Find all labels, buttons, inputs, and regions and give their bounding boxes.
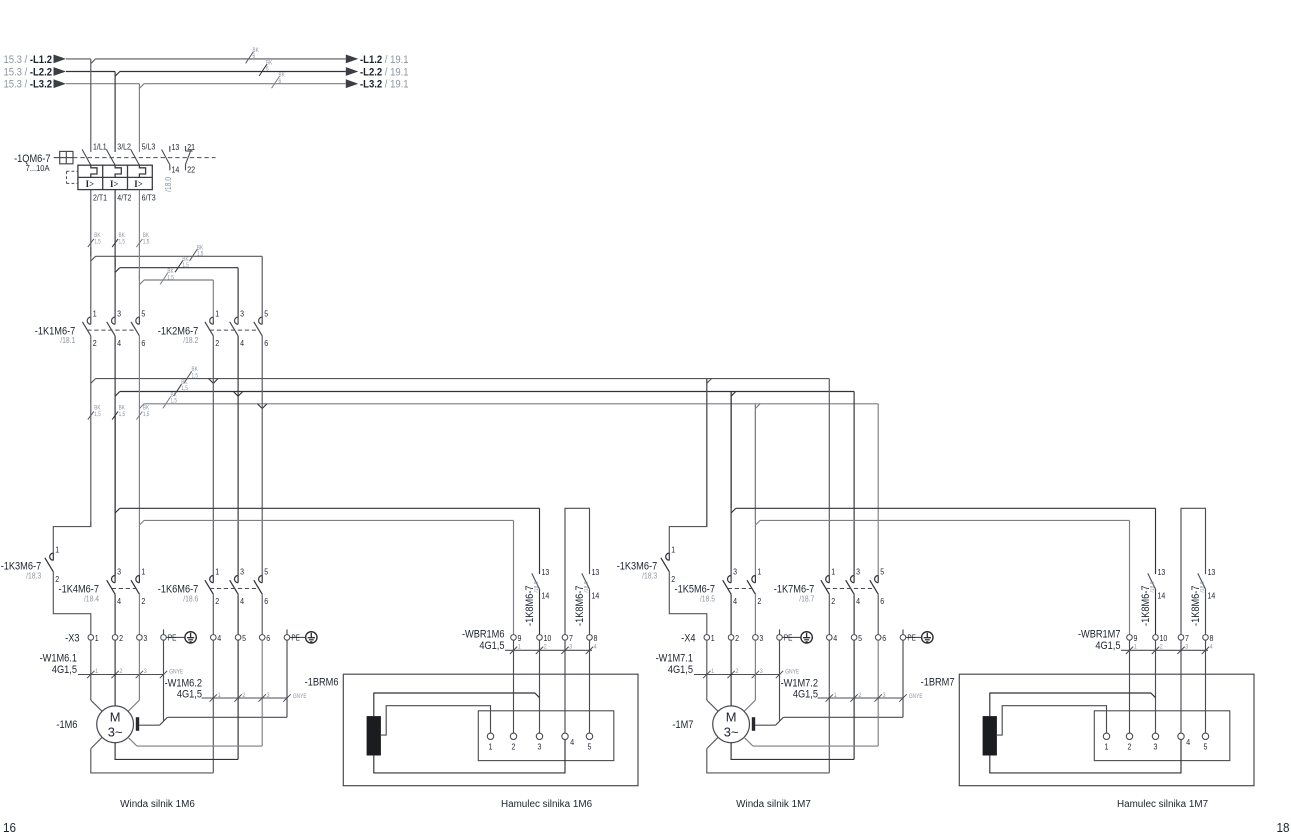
svg-text:5: 5: [264, 309, 268, 319]
svg-text:-WBR1M6: -WBR1M6: [462, 629, 505, 641]
svg-text:13: 13: [542, 567, 550, 577]
svg-text:1: 1: [55, 545, 59, 555]
svg-text:4G1,5: 4G1,5: [668, 664, 693, 676]
svg-text:2: 2: [119, 634, 123, 644]
svg-text:21: 21: [187, 143, 195, 153]
svg-text:-X4: -X4: [681, 633, 696, 645]
svg-text:2: 2: [215, 597, 219, 607]
svg-text:/18.8: /18.8: [534, 582, 540, 593]
svg-text:3: 3: [856, 567, 860, 577]
svg-text:/18.4: /18.4: [84, 594, 99, 604]
svg-text:GNYE: GNYE: [909, 693, 923, 700]
svg-text:13: 13: [592, 567, 600, 577]
svg-text:-L3.2 / 19.1: -L3.2 / 19.1: [360, 79, 409, 91]
svg-text:-W1M6.2: -W1M6.2: [165, 678, 203, 690]
svg-text:3: 3: [143, 634, 147, 644]
svg-text:4G1,5: 4G1,5: [1095, 641, 1120, 653]
svg-text:2: 2: [1128, 742, 1132, 752]
svg-text:5: 5: [264, 567, 268, 577]
svg-text:3~: 3~: [724, 725, 739, 740]
svg-text:4G1,5: 4G1,5: [52, 664, 77, 676]
svg-text:PE: PE: [907, 633, 916, 643]
svg-text:3: 3: [117, 309, 121, 319]
svg-text:4G1,5: 4G1,5: [177, 689, 202, 701]
svg-text:13: 13: [1158, 567, 1166, 577]
svg-text:3/L2: 3/L2: [117, 142, 131, 152]
svg-text:5: 5: [141, 309, 145, 319]
svg-text:-WBR1M7: -WBR1M7: [1078, 629, 1121, 641]
svg-text:4: 4: [733, 597, 737, 607]
svg-text:8: 8: [594, 634, 598, 644]
svg-text:5: 5: [1204, 742, 1208, 752]
svg-text:/18.2: /18.2: [183, 336, 198, 346]
svg-text:1,5: 1,5: [119, 239, 126, 246]
svg-text:1/L1: 1/L1: [93, 142, 107, 152]
svg-text:6: 6: [266, 634, 270, 644]
svg-text:/18.3: /18.3: [642, 571, 657, 581]
svg-text:2: 2: [512, 742, 516, 752]
svg-text:GNYE: GNYE: [169, 669, 183, 676]
svg-text:1: 1: [141, 567, 145, 577]
svg-text:1: 1: [1105, 742, 1109, 752]
svg-text:1,5: 1,5: [143, 411, 150, 418]
svg-text:1,5: 1,5: [167, 275, 174, 282]
svg-text:1: 1: [215, 309, 219, 319]
svg-text:PE: PE: [168, 633, 177, 643]
svg-text:5: 5: [242, 634, 246, 644]
svg-text:14: 14: [1208, 591, 1216, 601]
svg-text:M: M: [110, 709, 121, 724]
svg-text:1,5: 1,5: [171, 398, 178, 405]
svg-text:1,5: 1,5: [197, 251, 204, 258]
svg-text:Winda silnik 1M6: Winda silnik 1M6: [120, 799, 195, 810]
svg-text:4G1,5: 4G1,5: [793, 689, 818, 701]
svg-text:4: 4: [240, 597, 244, 607]
svg-text:-W1M7.2: -W1M7.2: [781, 678, 819, 690]
svg-text:-L2.2 / 19.1: -L2.2 / 19.1: [360, 67, 409, 79]
svg-text:-1BRM7: -1BRM7: [921, 677, 955, 689]
svg-text:3: 3: [759, 634, 763, 644]
svg-text:1,5: 1,5: [181, 386, 188, 393]
svg-text:14: 14: [592, 591, 600, 601]
svg-text:6: 6: [279, 78, 282, 85]
svg-text:4: 4: [117, 597, 121, 607]
svg-text:9: 9: [1134, 634, 1138, 644]
svg-text:M: M: [726, 709, 737, 724]
svg-text:15.3 / -L3.2: 15.3 / -L3.2: [3, 79, 52, 91]
svg-text:10: 10: [544, 634, 552, 644]
svg-text:1: 1: [215, 567, 219, 577]
svg-text:I>: I>: [86, 178, 94, 188]
svg-text:-1M6: -1M6: [56, 719, 77, 731]
svg-text:2: 2: [757, 597, 761, 607]
svg-text:7: 7: [569, 634, 573, 644]
svg-text:I>: I>: [110, 178, 118, 188]
svg-text:1: 1: [93, 309, 97, 319]
svg-text:7...10A: 7...10A: [26, 164, 51, 173]
svg-text:1,5: 1,5: [94, 239, 101, 246]
svg-text:18: 18: [1276, 821, 1289, 834]
svg-text:4: 4: [217, 634, 221, 644]
svg-text:1: 1: [831, 567, 835, 577]
svg-text:10: 10: [1160, 634, 1168, 644]
svg-text:2: 2: [215, 338, 219, 348]
svg-text:6/T3: 6/T3: [142, 193, 156, 203]
svg-text:7: 7: [1185, 634, 1189, 644]
svg-text:/18.6: /18.6: [183, 594, 198, 604]
svg-text:14: 14: [1158, 591, 1166, 601]
svg-text:5: 5: [858, 634, 862, 644]
svg-text:-1BRM6: -1BRM6: [305, 677, 339, 689]
svg-text:2: 2: [831, 597, 835, 607]
svg-text:3: 3: [117, 567, 121, 577]
svg-text:4: 4: [833, 634, 837, 644]
svg-text:Winda silnik 1M7: Winda silnik 1M7: [736, 799, 811, 810]
svg-text:2: 2: [55, 574, 59, 584]
svg-text:9: 9: [518, 634, 522, 644]
svg-text:/18.3: /18.3: [26, 571, 41, 581]
svg-text:1,5: 1,5: [182, 263, 189, 270]
svg-text:1,5: 1,5: [192, 373, 199, 380]
svg-text:4G1,5: 4G1,5: [479, 641, 504, 653]
svg-text:PE: PE: [291, 633, 300, 643]
svg-text:-W1M6.1: -W1M6.1: [40, 653, 78, 665]
svg-text:2: 2: [671, 574, 675, 584]
svg-text:6: 6: [266, 66, 269, 73]
svg-text:3: 3: [733, 567, 737, 577]
svg-text:-X3: -X3: [65, 633, 80, 645]
svg-text:5: 5: [880, 567, 884, 577]
svg-text:3: 3: [1154, 742, 1158, 752]
svg-text:1: 1: [757, 567, 761, 577]
svg-text:I>: I>: [134, 178, 142, 188]
svg-text:3: 3: [240, 309, 244, 319]
svg-text:16: 16: [3, 821, 16, 834]
svg-text:3: 3: [538, 742, 542, 752]
svg-text:3~: 3~: [108, 725, 123, 740]
svg-text:2: 2: [93, 338, 97, 348]
svg-text:13: 13: [172, 143, 180, 153]
svg-text:2: 2: [141, 597, 145, 607]
svg-text:4/T2: 4/T2: [117, 193, 131, 203]
svg-text:1,5: 1,5: [94, 411, 101, 418]
svg-text:14: 14: [542, 591, 550, 601]
svg-text:/18.8: /18.8: [1200, 582, 1206, 593]
svg-text:5/L3: 5/L3: [142, 142, 156, 152]
svg-text:2: 2: [735, 634, 739, 644]
svg-text:/18.1: /18.1: [60, 336, 75, 346]
svg-text:Hamulec silnika 1M6: Hamulec silnika 1M6: [501, 799, 593, 810]
svg-text:6: 6: [882, 634, 886, 644]
svg-text:22: 22: [187, 165, 195, 175]
svg-text:1: 1: [711, 634, 715, 644]
svg-text:1: 1: [95, 634, 99, 644]
svg-text:1,5: 1,5: [143, 239, 150, 246]
svg-text:6: 6: [253, 54, 256, 61]
svg-text:6: 6: [264, 338, 268, 348]
svg-text:4: 4: [570, 737, 574, 747]
svg-text:15.3 / -L1.2: 15.3 / -L1.2: [3, 54, 52, 66]
svg-text:/18.5: /18.5: [700, 594, 715, 604]
svg-text:GNYE: GNYE: [785, 669, 799, 676]
svg-text:4: 4: [856, 597, 860, 607]
svg-text:-W1M7.1: -W1M7.1: [656, 653, 694, 665]
svg-text:Hamulec silnika 1M7: Hamulec silnika 1M7: [1117, 799, 1209, 810]
svg-text:/18.8: /18.8: [1150, 582, 1156, 593]
svg-text:/18.0: /18.0: [163, 177, 173, 192]
svg-text:1: 1: [489, 742, 493, 752]
svg-text:6: 6: [264, 597, 268, 607]
svg-text:8: 8: [1210, 634, 1214, 644]
svg-text:GNYE: GNYE: [293, 693, 307, 700]
svg-text:1,5: 1,5: [119, 411, 126, 418]
svg-text:14: 14: [172, 165, 180, 175]
svg-text:-1M7: -1M7: [672, 719, 693, 731]
svg-text:4: 4: [240, 338, 244, 348]
svg-text:/18.7: /18.7: [799, 594, 814, 604]
svg-text:4: 4: [117, 338, 121, 348]
svg-text:6: 6: [141, 338, 145, 348]
svg-text:3: 3: [240, 567, 244, 577]
svg-text:4: 4: [1186, 737, 1190, 747]
svg-text:6: 6: [880, 597, 884, 607]
svg-text:PE: PE: [784, 633, 793, 643]
svg-text:1: 1: [671, 545, 675, 555]
svg-text:-L1.2 / 19.1: -L1.2 / 19.1: [360, 54, 409, 66]
svg-text:5: 5: [588, 742, 592, 752]
svg-text:/18.8: /18.8: [584, 582, 590, 593]
svg-text:13: 13: [1208, 567, 1216, 577]
svg-text:2/T1: 2/T1: [93, 193, 107, 203]
svg-text:15.3 / -L2.2: 15.3 / -L2.2: [3, 67, 52, 79]
